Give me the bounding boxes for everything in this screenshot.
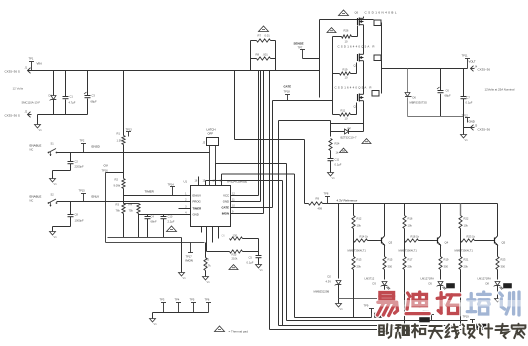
svg-text:300: 300 xyxy=(501,265,506,269)
svg-text:CX35–36 S: CX35–36 S xyxy=(5,114,20,118)
svg-text:68µF: 68µF xyxy=(91,100,98,104)
svg-text:Q3: Q3 xyxy=(389,241,393,245)
svg-text:TP15: TP15 xyxy=(79,189,86,193)
svg-text:2.7k: 2.7k xyxy=(206,264,212,268)
svg-text:10k: 10k xyxy=(357,224,362,228)
svg-text:R2: R2 xyxy=(115,178,119,182)
svg-text:R23: R23 xyxy=(501,258,506,262)
svg-text:76k: 76k xyxy=(116,209,121,213)
svg-text:VCC: VCC xyxy=(223,194,229,198)
svg-text:ENSD: ENSD xyxy=(92,145,101,149)
svg-text:VOLT: VOLT xyxy=(469,60,476,64)
svg-text:10: 10 xyxy=(345,117,348,121)
svg-text:V1: V1 xyxy=(54,235,58,239)
svg-text:R19: R19 xyxy=(444,258,449,262)
svg-text:NC: NC xyxy=(30,199,34,203)
svg-text:4.3V Reference: 4.3V Reference xyxy=(337,199,358,203)
svg-text:BZT52C10–7: BZT52C10–7 xyxy=(341,136,357,140)
svg-text:R23 1k: R23 1k xyxy=(467,235,476,239)
svg-text:V1: V1 xyxy=(183,276,187,280)
svg-text:499: 499 xyxy=(318,207,323,211)
svg-text:ENABLE: ENABLE xyxy=(30,144,42,148)
svg-text:R13: R13 xyxy=(357,258,362,262)
svg-text:V1: V1 xyxy=(154,322,158,326)
svg-text:OFF: OFF xyxy=(208,132,214,136)
svg-text:SENSE: SENSE xyxy=(294,42,304,46)
svg-text:MMBZ5229B: MMBZ5229B xyxy=(314,290,330,294)
svg-text:D5: D5 xyxy=(429,282,433,286)
svg-text:U1: U1 xyxy=(184,180,188,184)
svg-text:R7: R7 xyxy=(258,34,262,38)
svg-text:D3: D3 xyxy=(373,282,377,286)
svg-text:TP11: TP11 xyxy=(462,54,469,58)
svg-text:Q1: Q1 xyxy=(354,64,358,68)
svg-text:Q4: Q4 xyxy=(445,241,449,245)
svg-text:V1: V1 xyxy=(39,128,43,132)
svg-text:9.09k: 9.09k xyxy=(114,184,121,188)
svg-text:TP3: TP3 xyxy=(160,298,165,302)
svg-text:= Thermal pad: = Thermal pad xyxy=(229,330,249,334)
svg-text:R8: R8 xyxy=(256,53,260,57)
svg-text:D1: D1 xyxy=(49,94,53,98)
svg-text:R11: R11 xyxy=(341,109,346,113)
svg-text:Q2: Q2 xyxy=(354,105,358,109)
svg-text:R19: R19 xyxy=(343,68,348,72)
svg-text:75k: 75k xyxy=(129,209,134,213)
svg-text:2.2µF: 2.2µF xyxy=(168,220,175,224)
svg-text:Q5: Q5 xyxy=(502,241,506,245)
svg-text:20k: 20k xyxy=(464,265,469,269)
svg-text:4.7µF: 4.7µF xyxy=(69,101,76,105)
svg-text:V1: V1 xyxy=(54,182,58,186)
svg-text:MMBT3904LT1: MMBT3904LT1 xyxy=(455,249,474,253)
svg-text:GATE: GATE xyxy=(284,85,292,89)
svg-text:LM1271RA: LM1271RA xyxy=(478,277,492,281)
svg-text:NC: NC xyxy=(30,148,34,152)
svg-text:210k: 210k xyxy=(232,257,238,261)
svg-text:R17: R17 xyxy=(408,258,413,262)
svg-text:D8: D8 xyxy=(486,282,490,286)
svg-text:TP5: TP5 xyxy=(190,298,195,302)
svg-text:VIN: VIN xyxy=(37,62,42,66)
svg-text:0.1µF: 0.1µF xyxy=(335,163,342,167)
svg-text:D2: D2 xyxy=(328,275,332,279)
svg-text:CSD16N40BL: CSD16N40BL xyxy=(365,11,397,15)
svg-text:PROG: PROG xyxy=(193,200,201,204)
svg-text:300: 300 xyxy=(444,265,449,269)
svg-text:TIMER: TIMER xyxy=(193,207,202,211)
svg-text:C8: C8 xyxy=(75,213,79,217)
svg-text:S1: S1 xyxy=(51,142,55,146)
svg-text:10: 10 xyxy=(345,76,348,80)
svg-text:20k: 20k xyxy=(408,265,413,269)
svg-text:GND: GND xyxy=(193,213,199,217)
svg-text:68nF: 68nF xyxy=(151,220,157,224)
svg-text:GND: GND xyxy=(223,200,229,204)
svg-text:TP1: TP1 xyxy=(29,57,34,61)
svg-text:V1: V1 xyxy=(465,138,469,142)
svg-text:4.3V: 4.3V xyxy=(326,280,332,284)
svg-text:C6: C6 xyxy=(446,89,450,93)
svg-text:S2: S2 xyxy=(51,193,55,197)
svg-text:R12: R12 xyxy=(357,217,362,221)
svg-text:TP9: TP9 xyxy=(364,304,369,308)
svg-text:0.1µF: 0.1µF xyxy=(247,261,254,265)
svg-text:CX35–36: CX35–36 xyxy=(478,128,491,132)
svg-text:CX35–36: CX35–36 xyxy=(478,68,491,72)
svg-text:20k: 20k xyxy=(357,265,362,269)
svg-text:OV: OV xyxy=(104,164,108,168)
svg-text:IMON: IMON xyxy=(186,259,193,263)
svg-text:MBRS330T3G: MBRS330T3G xyxy=(410,101,427,105)
svg-text:TP19: TP19 xyxy=(463,315,470,319)
svg-text:C11: C11 xyxy=(335,158,340,162)
svg-text:SMC110A-13-F: SMC110A-13-F xyxy=(22,101,41,105)
svg-text:D6: D6 xyxy=(413,96,417,100)
svg-text:C10: C10 xyxy=(168,215,173,219)
svg-text:C5: C5 xyxy=(249,256,253,260)
svg-text:TP18: TP18 xyxy=(284,90,291,94)
svg-text:TP7: TP7 xyxy=(298,46,303,50)
svg-text:R22: R22 xyxy=(464,217,469,221)
svg-text:TP13: TP13 xyxy=(126,128,133,132)
svg-text:C2: C2 xyxy=(75,160,79,164)
svg-text:TIMER: TIMER xyxy=(145,190,155,194)
svg-text:0.01: 0.01 xyxy=(265,34,271,38)
svg-text:V1: V1 xyxy=(332,176,336,180)
svg-text:ENABLE: ENABLE xyxy=(30,195,42,199)
svg-text:300: 300 xyxy=(388,265,393,269)
svg-text:LM3712: LM3712 xyxy=(365,277,375,281)
svg-text:R9: R9 xyxy=(316,197,320,201)
svg-text:TP12: TP12 xyxy=(462,114,469,118)
svg-text:R21: R21 xyxy=(464,258,469,262)
svg-text:.001: .001 xyxy=(263,53,269,57)
svg-text:V1: V1 xyxy=(207,280,211,284)
svg-text:2200pF: 2200pF xyxy=(75,165,84,169)
svg-text:CX35–36 S: CX35–36 S xyxy=(5,70,20,74)
svg-text:R3: R3 xyxy=(116,203,120,207)
svg-text:MMBT3904LT1: MMBT3904LT1 xyxy=(399,249,418,253)
svg-text:R18 1k: R18 1k xyxy=(411,235,420,239)
svg-text:TP2: TP2 xyxy=(80,139,85,143)
svg-text:R24: R24 xyxy=(335,142,340,146)
svg-text:Q6: Q6 xyxy=(355,11,359,15)
svg-text:LM1271RA: LM1271RA xyxy=(421,277,435,281)
svg-text:10: 10 xyxy=(345,40,348,44)
svg-text:GATE: GATE xyxy=(221,206,229,210)
svg-text:R15: R15 xyxy=(388,258,393,262)
svg-text:68µF: 68µF xyxy=(445,94,452,98)
svg-text:EN/UV: EN/UV xyxy=(193,194,202,198)
svg-text:R26: R26 xyxy=(344,29,349,33)
svg-text:ENLV: ENLV xyxy=(92,195,100,199)
svg-text:C4: C4 xyxy=(151,215,155,219)
svg-text:V1: V1 xyxy=(260,268,264,272)
svg-text:CSD16440Q5A R: CSD16440Q5A R xyxy=(338,45,375,49)
svg-text:C3: C3 xyxy=(92,94,96,98)
svg-text:TP16: TP16 xyxy=(102,169,109,173)
svg-text:TP4: TP4 xyxy=(175,298,180,302)
svg-text:R1: R1 xyxy=(117,132,121,136)
svg-text:IMON: IMON xyxy=(222,212,229,216)
svg-text:CSD16440Q5A R: CSD16440Q5A R xyxy=(335,86,372,90)
svg-text:12Volts at 25A Nominal: 12Volts at 25A Nominal xyxy=(485,88,515,92)
svg-text:0.1µF: 0.1µF xyxy=(466,101,473,105)
svg-text:10k: 10k xyxy=(408,224,413,228)
svg-text:TP14: TP14 xyxy=(168,183,175,187)
svg-text:C1: C1 xyxy=(70,95,74,99)
svg-text:TP8: TP8 xyxy=(324,192,329,196)
svg-text:R14 1k: R14 1k xyxy=(360,235,369,239)
svg-text:C7: C7 xyxy=(467,96,471,100)
svg-text:1000pF: 1000pF xyxy=(75,219,84,223)
svg-text:10k: 10k xyxy=(464,224,469,228)
svg-text:MMBT3904LT1: MMBT3904LT1 xyxy=(348,249,367,253)
svg-text:1.5M: 1.5M xyxy=(117,139,124,143)
svg-text:12 Volts: 12 Volts xyxy=(13,87,24,91)
svg-text:GND: GND xyxy=(469,120,475,124)
svg-text:V1: V1 xyxy=(340,307,344,311)
svg-text:R25: R25 xyxy=(232,253,237,257)
svg-text:R16: R16 xyxy=(408,217,413,221)
svg-text:TP6: TP6 xyxy=(205,298,210,302)
